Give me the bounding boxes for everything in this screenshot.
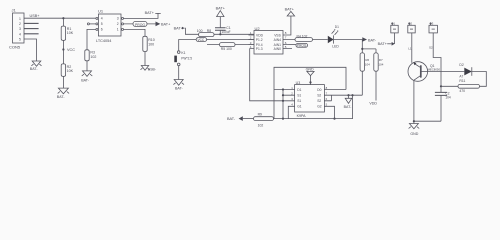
svg-text:PROG: PROG <box>297 44 307 48</box>
wire Q1 base to node <box>421 71 441 73</box>
ground BAT- (R3) <box>81 71 92 83</box>
ground GND (U3 top) <box>306 67 315 84</box>
ground BAT- (R2) <box>57 88 69 99</box>
wire U1 pin1 to R10 <box>124 29 146 36</box>
wire U3 S2 rows to R6 <box>324 95 362 101</box>
diode D2 <box>441 63 486 86</box>
svg-text:AIN0: AIN0 <box>274 47 281 51</box>
svg-text:LTC4054: LTC4054 <box>96 39 111 43</box>
svg-text:USB-: USB- <box>148 68 156 72</box>
svg-text:B1: B1 <box>391 21 395 25</box>
svg-text:S1: S1 <box>297 99 301 103</box>
power flag BAT+ (U2 VSS) <box>285 7 295 16</box>
wire U1 pin2 PROG <box>124 23 156 25</box>
svg-text:100uF: 100uF <box>222 30 231 34</box>
svg-text:5: 5 <box>101 22 103 26</box>
svg-text:USB+: USB+ <box>30 14 41 18</box>
node PROG label (U1) <box>133 21 147 26</box>
svg-text:100: 100 <box>197 29 203 33</box>
wire node to C2 and ground <box>440 72 442 122</box>
resistor R2 <box>61 50 73 89</box>
node VCC <box>62 48 75 52</box>
connector J1 CON5 <box>9 8 24 50</box>
wire outer loop (U3) <box>274 67 346 118</box>
svg-text:BAT+: BAT+ <box>378 42 388 46</box>
svg-text:R1: R1 <box>67 27 72 31</box>
wire J1 pin5 to ground <box>24 39 37 61</box>
node arrow flag BAT+ (U1 pin2) <box>156 22 172 27</box>
J1 pin4 stub <box>24 33 39 35</box>
svg-text:VDD: VDD <box>369 102 377 106</box>
wire ground run (Q1 collector to C2) <box>414 120 441 122</box>
battery B1 <box>391 21 398 44</box>
wire LED to BAT- flag <box>334 39 363 41</box>
svg-text:R4 102: R4 102 <box>297 34 308 38</box>
svg-text:2: 2 <box>117 22 119 26</box>
resistor R1 <box>61 18 74 49</box>
svg-text:BAT-: BAT- <box>57 95 66 99</box>
svg-text:BAT-: BAT- <box>368 38 377 42</box>
svg-text:P1.2: P1.2 <box>256 38 263 42</box>
battery B3 <box>429 21 441 71</box>
svg-text:R10: R10 <box>148 38 155 42</box>
svg-text:R8: R8 <box>207 29 211 33</box>
svg-text:BAT-: BAT- <box>175 87 184 91</box>
svg-text:102: 102 <box>258 123 264 127</box>
svg-text:P1.3: P1.3 <box>256 47 263 51</box>
svg-text:VSS: VSS <box>274 33 281 37</box>
wire U2 P1.2 to switch <box>179 40 254 51</box>
wire VDD rail to U2 <box>185 28 254 34</box>
capacitor C2 <box>435 92 451 100</box>
U1 pin6 stub <box>87 23 96 25</box>
mosfet U3 <box>291 81 327 118</box>
svg-text:K9PA: K9PA <box>297 114 307 118</box>
svg-text:MEC8050: MEC8050 <box>428 68 441 72</box>
svg-text:CON5: CON5 <box>9 45 21 50</box>
op-amp U1 LTC4054 <box>96 9 124 43</box>
wire U3 D0 row <box>324 89 346 91</box>
resistor R8 <box>197 29 214 37</box>
svg-text:R11: R11 <box>459 79 465 83</box>
wire U1 pin5 to R3 <box>87 29 96 49</box>
node junction R1 top <box>62 17 64 19</box>
wire U2 AIN4 to LED <box>289 39 328 41</box>
wire bottom run to S2 <box>274 95 353 118</box>
svg-text:D2: D2 <box>459 63 463 67</box>
svg-text:D1: D1 <box>335 25 339 29</box>
svg-text:BAT+: BAT+ <box>285 7 295 11</box>
svg-text:S2: S2 <box>317 99 321 103</box>
svg-text:470: 470 <box>459 89 465 93</box>
wire U2 P0.4 through R5 <box>207 44 254 46</box>
node arrow flag BAT- (R9) <box>227 116 243 121</box>
svg-text:BAT-: BAT- <box>227 117 236 121</box>
J1 pin2 stub <box>24 22 39 24</box>
svg-text:VDD: VDD <box>256 33 264 37</box>
ground BAT- (J1) <box>30 61 42 71</box>
svg-text:BAT+: BAT+ <box>161 23 171 27</box>
node arrow flag BAT- (LED) <box>362 37 377 42</box>
battery B2 <box>408 21 415 62</box>
wire U3 D1 row <box>274 89 295 91</box>
svg-text:1: 1 <box>117 28 119 32</box>
resistor R9 <box>243 113 274 128</box>
wire U2 VSS to BAT+ <box>289 16 291 35</box>
wire U3 S1 column <box>283 90 295 119</box>
wire switch to ground <box>178 66 180 80</box>
svg-text:PW*2.5: PW*2.5 <box>181 56 192 60</box>
LED D1 <box>328 25 340 48</box>
svg-text:LED: LED <box>332 44 339 48</box>
svg-text:AIN4: AIN4 <box>274 38 281 42</box>
svg-text:104: 104 <box>445 96 451 100</box>
capacitor C1 <box>215 17 231 35</box>
svg-text:GND: GND <box>410 132 418 136</box>
svg-text:VCC: VCC <box>67 48 75 52</box>
svg-text:10K: 10K <box>67 69 74 73</box>
svg-text:A7: A7 <box>459 75 463 79</box>
resistor R7 <box>374 53 384 101</box>
svg-text:D1: D1 <box>297 88 301 92</box>
svg-text:1: 1 <box>19 17 21 21</box>
wire U1 pin3 to BAT+ <box>124 13 159 18</box>
svg-text:K1: K1 <box>181 51 185 55</box>
svg-text:B2: B2 <box>408 21 412 25</box>
switch K1 <box>174 51 192 66</box>
svg-text:100: 100 <box>148 42 154 46</box>
node VCC label (P1.2) <box>196 38 206 42</box>
resistor R10 <box>143 36 155 65</box>
svg-text:U1: U1 <box>98 9 104 14</box>
svg-text:BAT+: BAT+ <box>216 6 226 10</box>
svg-text:3: 3 <box>19 27 21 31</box>
mcu U2 <box>249 26 293 54</box>
resistor R6 <box>360 53 370 95</box>
svg-text:R2: R2 <box>67 65 72 69</box>
ground BAT- (K1) <box>173 80 184 91</box>
ground flag BAT- (S2 wire) <box>344 95 353 109</box>
svg-text:R9: R9 <box>258 113 262 117</box>
resistor R4 <box>295 34 313 41</box>
svg-text:S2: S2 <box>317 94 321 98</box>
svg-text:G2: G2 <box>317 105 322 109</box>
svg-text:U2: U2 <box>255 26 261 31</box>
svg-text:B3: B3 <box>430 21 434 25</box>
svg-text:102: 102 <box>90 55 96 59</box>
wire LED node down to R6 R7 <box>362 40 376 53</box>
node PROG label (U2) <box>289 43 308 47</box>
svg-text:D0: D0 <box>317 88 321 92</box>
svg-text:104: 104 <box>365 62 370 66</box>
wire USB+ (J1 pin1 to U1 pin4) <box>24 17 96 19</box>
svg-text:R3: R3 <box>90 51 95 55</box>
node junction C1 <box>219 33 221 35</box>
resistor R3 <box>85 50 97 71</box>
transistor Q1 <box>408 62 440 121</box>
power flag BAT+ (VDD rail) <box>174 27 185 31</box>
svg-text:2: 2 <box>19 22 21 26</box>
svg-text:L1: L1 <box>408 47 412 51</box>
resistor R11 <box>441 79 480 93</box>
svg-text:G1: G1 <box>297 105 302 109</box>
svg-text:BAT+: BAT+ <box>145 11 155 15</box>
wire U2 P1.3 to U3 <box>250 49 283 101</box>
svg-text:VCC: VCC <box>198 38 205 42</box>
svg-text:10K: 10K <box>67 31 74 35</box>
resistor R5 <box>220 43 236 52</box>
wire U3 G2 drop <box>324 106 334 118</box>
svg-text:BAT-: BAT- <box>30 67 39 71</box>
power flag BAT+ (C1) <box>216 6 226 16</box>
svg-text:104: 104 <box>378 62 383 66</box>
wire U3 G1 drop <box>288 106 294 118</box>
svg-text:4: 4 <box>101 17 103 21</box>
node arrow flag BAT+ (B1) <box>378 42 395 46</box>
power flag BAT+ (U1 pin3) <box>145 11 161 15</box>
svg-text:U3: U3 <box>296 81 301 85</box>
svg-text:6: 6 <box>101 28 103 32</box>
svg-text:5: 5 <box>19 38 21 42</box>
J1 pin3 stub <box>24 28 39 30</box>
svg-text:BAT-: BAT- <box>344 105 353 109</box>
svg-text:3: 3 <box>117 17 119 21</box>
ground USB- (R10) <box>141 66 156 72</box>
svg-text:R5 100: R5 100 <box>221 47 232 51</box>
ground GND (Q1) <box>409 121 420 136</box>
svg-text:S2: S2 <box>429 46 433 50</box>
svg-text:PROG: PROG <box>135 23 145 27</box>
svg-text:4: 4 <box>19 32 21 36</box>
svg-text:BAT-: BAT- <box>81 78 90 82</box>
svg-text:GND: GND <box>306 67 314 71</box>
svg-text:S1: S1 <box>297 94 301 98</box>
